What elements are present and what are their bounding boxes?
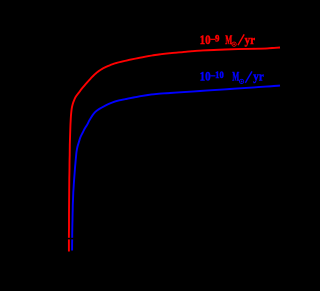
sun symbol subscript — [232, 42, 236, 46]
slash — [238, 34, 244, 45]
svg-text:–10: –10 — [210, 70, 224, 80]
red label 10^-9 Msun/yr — [200, 32, 256, 47]
svg-text:10: 10 — [200, 32, 211, 47]
blue label 10^-10 Msun/yr — [200, 69, 265, 84]
svg-text:M: M — [232, 71, 239, 84]
svg-text:–9: –9 — [210, 33, 220, 43]
black marker line crossing curves — [66, 238, 77, 240]
svg-text:yr: yr — [245, 32, 256, 47]
svg-text:M: M — [225, 34, 232, 47]
curve red: 1e-9 Msun/yr — [69, 48, 280, 252]
slash — [245, 71, 252, 83]
svg-text:yr: yr — [253, 69, 264, 84]
sun symbol subscript — [240, 79, 244, 83]
curve blue: 1e-10 Msun/yr — [72, 86, 280, 251]
svg-text:10: 10 — [200, 69, 211, 84]
